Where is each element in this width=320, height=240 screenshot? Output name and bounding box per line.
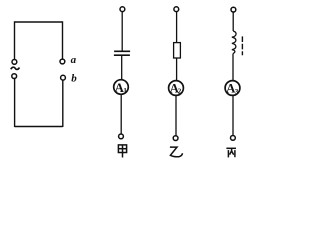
- svg-text:b: b: [71, 73, 77, 85]
- wire bottom side of source loop: [15, 126, 63, 128]
- terminal top of branch jia: [120, 7, 125, 12]
- svg-text:3: 3: [235, 88, 239, 96]
- wire right side upper segment: [62, 21, 64, 58]
- wire from top terminal to capacitor: [121, 12, 123, 51]
- terminal top of branch yi: [174, 7, 179, 12]
- terminal a: [60, 59, 65, 64]
- label bing (CJK drawn as strokes): [226, 148, 236, 157]
- label yi (CJK drawn as strokes): [170, 147, 183, 157]
- wire from ammeter A1 to bottom terminal: [120, 94, 122, 134]
- terminal bottom of branch yi: [173, 136, 178, 141]
- AC source tilde symbol: [11, 67, 20, 69]
- wire from ammeter A3 to bottom terminal: [232, 95, 234, 135]
- capacitor C: [114, 51, 130, 55]
- inductor iron core dashed line: [241, 36, 243, 55]
- AC source terminal lower circle: [12, 74, 17, 79]
- wire from top terminal to inductor: [232, 12, 234, 31]
- wire from top terminal to resistor: [176, 12, 178, 43]
- terminal b: [61, 75, 66, 80]
- wire top side of source loop: [15, 21, 63, 23]
- terminal bottom of branch bing: [231, 136, 236, 141]
- inductor L coil: [232, 31, 236, 54]
- AC source terminal upper circle: [12, 60, 17, 65]
- svg-text:a: a: [71, 54, 77, 66]
- svg-text:1: 1: [123, 87, 127, 95]
- node b label: [71, 73, 77, 85]
- svg-text:2: 2: [178, 87, 182, 95]
- label jia (CJK drawn as strokes): [118, 145, 126, 158]
- wire from ammeter A2 to bottom terminal: [175, 95, 177, 135]
- wire left side upper segment: [14, 21, 16, 59]
- node a label: [71, 54, 77, 66]
- ammeter A1: [114, 80, 129, 95]
- ammeter A3: [225, 81, 240, 96]
- terminal top of branch bing: [231, 7, 236, 12]
- terminal bottom of branch jia: [119, 134, 124, 139]
- wire left side lower segment: [14, 79, 16, 127]
- ammeter A2: [169, 81, 184, 96]
- wire from inductor to ammeter A3: [232, 54, 234, 81]
- resistor R: [174, 43, 181, 58]
- wire from resistor to ammeter A2: [176, 58, 178, 81]
- wire from capacitor to ammeter A1: [121, 56, 123, 80]
- wire right side lower segment: [62, 80, 64, 127]
